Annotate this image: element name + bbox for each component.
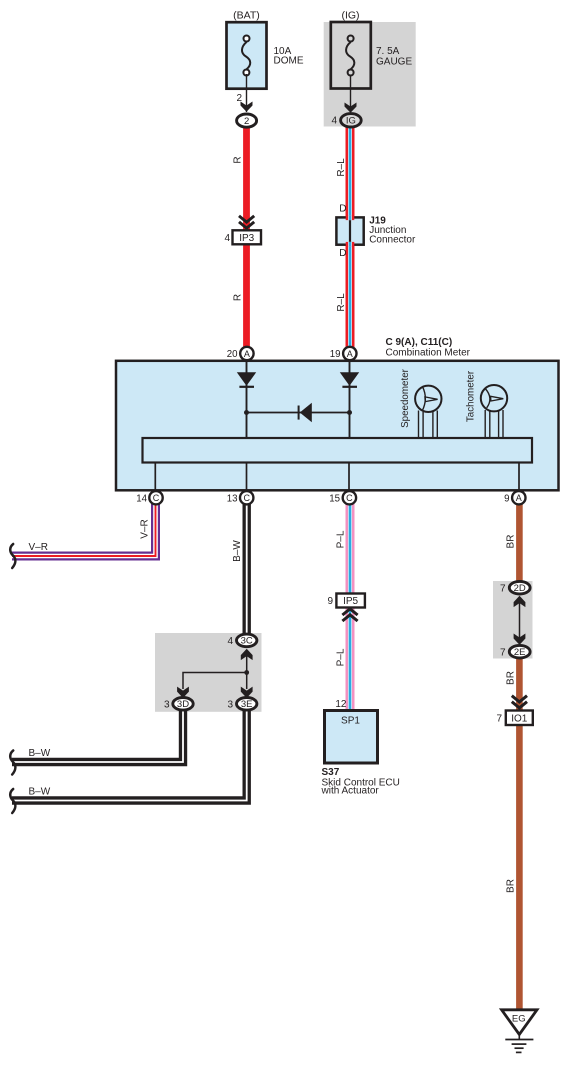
- svg-text:B–W: B–W: [29, 748, 51, 759]
- wire P-L (pin 15 to SP1 of S37): [346, 503, 355, 712]
- double chevron up below IP5: [342, 609, 357, 621]
- svg-text:14: 14: [136, 493, 147, 504]
- gray background panel around 2D/2E connectors: [493, 581, 533, 659]
- arrow down into 3E: [241, 687, 253, 698]
- svg-text:A: A: [347, 349, 353, 359]
- gray background panel around IG fuse: [324, 22, 416, 127]
- svg-text:with Actuator: with Actuator: [321, 786, 380, 797]
- svg-text:D: D: [339, 204, 346, 215]
- svg-text:C: C: [153, 493, 160, 503]
- svg-text:13: 13: [227, 493, 238, 504]
- wire B-W (pin 13 to connector 3C): [242, 503, 250, 635]
- svg-text:Combination Meter: Combination Meter: [386, 348, 471, 359]
- wire BR (connector 2E to ground EG): [516, 657, 523, 1010]
- connector oval 2E: [509, 645, 530, 658]
- svg-text:A: A: [516, 493, 522, 503]
- svg-text:V–R: V–R: [29, 542, 48, 553]
- pin 15 circle C: [343, 491, 356, 504]
- wire R-L (fuse GAUGE to pin 19): [346, 126, 355, 348]
- wire R-L stub over J19 bottom border: [346, 242, 355, 247]
- svg-text:C 9(A), C11(C): C 9(A), C11(C): [386, 337, 453, 348]
- svg-text:4: 4: [331, 116, 337, 127]
- double chevron down on BR wire: [512, 696, 527, 708]
- gray background panel around 3C/3D/3E connectors: [155, 633, 262, 712]
- tachometer gauge symbol: [481, 385, 507, 438]
- wire B-W (connector 3E to left break): [12, 709, 247, 801]
- svg-text:4: 4: [227, 636, 233, 647]
- connector oval 2: [237, 114, 257, 127]
- svg-text:BR: BR: [506, 879, 517, 893]
- svg-text:20: 20: [227, 349, 238, 360]
- lead bar to pin 14: [154, 463, 156, 492]
- svg-text:7: 7: [500, 583, 506, 594]
- svg-text:IP3: IP3: [239, 233, 254, 244]
- diode D2 (under pin 19): [340, 372, 359, 387]
- svg-text:IG: IG: [346, 116, 356, 127]
- ECU box SP1 (S37): [325, 711, 378, 764]
- svg-text:3: 3: [227, 699, 233, 710]
- fuse element symbol (DOME): [242, 36, 250, 76]
- link 3C to junction dot: [246, 656, 248, 673]
- svg-text:R: R: [233, 156, 244, 163]
- wire BR (pin 9 to connector 2D): [516, 503, 523, 582]
- lead bar to pin 9: [518, 463, 520, 492]
- break squiggle on lower B-W wire: [10, 789, 15, 813]
- svg-text:V–R: V–R: [140, 519, 151, 538]
- svg-text:3D: 3D: [177, 699, 189, 710]
- fuse element symbol (GAUGE): [346, 36, 354, 76]
- diode D1 (under pin 20): [237, 372, 256, 387]
- svg-text:BR: BR: [506, 671, 517, 685]
- fuse 7.5A GAUGE box: [331, 22, 371, 89]
- svg-text:15: 15: [329, 493, 340, 504]
- svg-text:3: 3: [164, 699, 170, 710]
- lead bar to pin 15: [348, 463, 350, 492]
- svg-text:3E: 3E: [241, 699, 253, 710]
- svg-text:EG: EG: [512, 1014, 526, 1025]
- svg-text:(BAT): (BAT): [233, 10, 260, 22]
- svg-text:R: R: [233, 294, 244, 301]
- meter internal lead pin19 down: [349, 361, 351, 438]
- svg-text:GAUGE: GAUGE: [376, 57, 412, 68]
- arrow down into 2E: [514, 634, 526, 645]
- svg-text:9: 9: [327, 596, 333, 607]
- svg-text:2D: 2D: [514, 583, 526, 594]
- svg-text:2: 2: [244, 116, 249, 127]
- svg-text:7: 7: [496, 714, 502, 725]
- svg-text:B–W: B–W: [232, 540, 243, 562]
- svg-text:9: 9: [504, 493, 509, 504]
- junction dot right: [347, 410, 352, 415]
- pin 14 circle C: [149, 491, 162, 504]
- arrow down into 3D: [177, 687, 189, 698]
- pin 19 circle A: [343, 347, 356, 360]
- svg-text:P–L: P–L: [336, 648, 347, 666]
- arrow into connector IG: [345, 103, 357, 113]
- meter internal bus bar: [143, 438, 533, 463]
- ground symbol EG: [502, 1010, 537, 1053]
- connector oval IG: [341, 114, 362, 127]
- connector box IO1: [506, 711, 533, 726]
- break squiggle on upper B-W wire: [10, 751, 15, 775]
- pin 13 circle C: [240, 491, 253, 504]
- svg-text:SP1: SP1: [341, 716, 360, 727]
- speedometer gauge symbol: [415, 386, 441, 438]
- svg-text:BR: BR: [506, 535, 517, 549]
- arrow up into 3C: [241, 649, 253, 660]
- svg-text:A: A: [244, 349, 250, 359]
- J19 center divider: [349, 218, 351, 244]
- svg-text:7. 5A: 7. 5A: [376, 46, 400, 57]
- wire R-L stub over J19 top border: [346, 215, 355, 220]
- svg-text:19: 19: [330, 349, 341, 360]
- diode D3 (pointing left, mid link): [299, 403, 312, 422]
- svg-text:IO1: IO1: [511, 714, 528, 725]
- svg-text:R–L: R–L: [336, 293, 347, 312]
- svg-text:P–L: P–L: [336, 530, 347, 548]
- link 2D to 2E: [519, 603, 521, 638]
- horizontal link between diode branches: [247, 412, 350, 414]
- connector box IP3: [233, 230, 262, 244]
- wire B-W (connector 3D to left break): [12, 709, 183, 762]
- svg-text:S37: S37: [322, 767, 340, 778]
- svg-text:Connector: Connector: [369, 235, 416, 246]
- branch to 3E: [246, 673, 248, 690]
- svg-text:DOME: DOME: [274, 56, 304, 67]
- svg-text:D: D: [339, 248, 346, 259]
- lead from GAUGE fuse to connector IG: [350, 75, 352, 112]
- junction dot 3C branch: [244, 670, 249, 675]
- svg-text:3C: 3C: [241, 636, 253, 647]
- svg-text:R–L: R–L: [336, 158, 347, 177]
- pin 20 circle A: [240, 347, 253, 360]
- wire R (fuse DOME to pin 20): [243, 126, 250, 348]
- pin 9 circle A: [512, 491, 525, 504]
- lead from DOME fuse to connector 2: [246, 74, 248, 112]
- svg-text:B–W: B–W: [29, 787, 51, 798]
- junction dot left: [244, 410, 249, 415]
- meter internal lead pin20 down: [246, 361, 248, 438]
- break squiggle on V-R wire: [10, 544, 15, 568]
- svg-text:C: C: [243, 493, 250, 503]
- arrow into connector 2: [241, 102, 253, 112]
- connector box IP5: [336, 594, 365, 608]
- connector oval 2D: [509, 581, 530, 594]
- double chevron on wire R: [239, 216, 254, 228]
- svg-text:C: C: [346, 493, 353, 503]
- svg-text:IP5: IP5: [343, 596, 358, 607]
- svg-text:(IG): (IG): [341, 10, 359, 22]
- wire V-R (pin 14 to left break): [12, 503, 156, 556]
- svg-text:Speedometer: Speedometer: [400, 368, 411, 428]
- lead bar to pin 13: [246, 463, 248, 492]
- svg-text:12: 12: [335, 699, 347, 710]
- combination meter box: [116, 361, 559, 491]
- arrow up into 2D: [514, 596, 526, 607]
- svg-text:2E: 2E: [514, 647, 526, 658]
- svg-text:4: 4: [224, 233, 230, 244]
- connector oval 3D: [173, 698, 193, 711]
- svg-text:Tachometer: Tachometer: [466, 370, 477, 422]
- connector oval 3C: [237, 634, 257, 647]
- svg-text:2: 2: [236, 93, 242, 104]
- branch to 3D: [183, 673, 247, 690]
- junction connector J19 box: [336, 217, 363, 244]
- fuse 10A DOME box: [227, 22, 267, 89]
- svg-text:7: 7: [500, 647, 506, 658]
- connector oval 3E: [237, 698, 257, 711]
